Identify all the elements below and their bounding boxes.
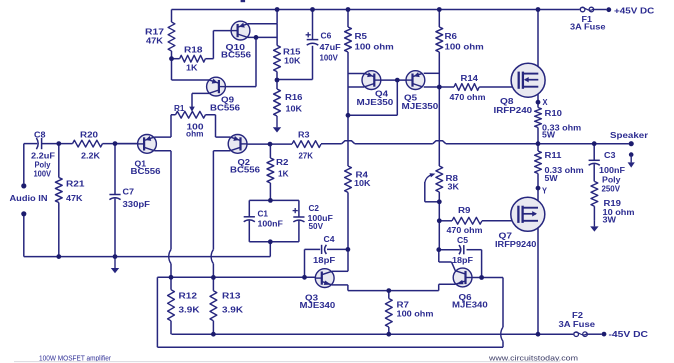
svg-text:27K: 27K — [299, 151, 314, 160]
svg-text:R6: R6 — [445, 32, 458, 41]
svg-text:MJE340: MJE340 — [300, 301, 336, 310]
svg-text:Poly: Poly — [602, 175, 621, 184]
svg-text:10K: 10K — [286, 104, 303, 113]
svg-text:Speaker: Speaker — [610, 131, 648, 140]
svg-text:R13: R13 — [222, 292, 241, 301]
svg-text:5W: 5W — [545, 174, 558, 183]
svg-text:C6: C6 — [321, 32, 332, 41]
svg-text:3K: 3K — [448, 182, 460, 191]
svg-text:330pF: 330pF — [123, 200, 151, 209]
svg-text:C5: C5 — [457, 236, 469, 245]
svg-text:18pF: 18pF — [452, 256, 473, 265]
svg-text:3.9K: 3.9K — [222, 305, 243, 314]
svg-text:R11: R11 — [545, 151, 563, 160]
svg-text:3.9K: 3.9K — [179, 305, 200, 314]
svg-text:C8: C8 — [34, 131, 46, 140]
svg-text:R7: R7 — [397, 301, 410, 310]
svg-text:R19: R19 — [604, 199, 622, 208]
svg-text:C3: C3 — [604, 151, 616, 160]
svg-text:1K: 1K — [278, 169, 289, 178]
svg-text:50V: 50V — [309, 222, 324, 231]
svg-text:2.2K: 2.2K — [81, 152, 100, 161]
svg-text:MJE340: MJE340 — [452, 301, 488, 310]
svg-text:R1: R1 — [174, 104, 185, 113]
svg-text:-45V DC: -45V DC — [609, 330, 649, 339]
svg-text:R20: R20 — [80, 131, 99, 140]
svg-text:IRFP9240: IRFP9240 — [495, 240, 537, 249]
svg-text:R4: R4 — [356, 171, 369, 180]
svg-text:10K: 10K — [284, 57, 301, 66]
svg-text:47K: 47K — [66, 194, 83, 203]
svg-text:MJE350: MJE350 — [402, 102, 439, 111]
svg-text:R10: R10 — [545, 109, 563, 118]
svg-text:R21: R21 — [66, 179, 85, 188]
svg-text:100nF: 100nF — [599, 166, 625, 175]
svg-text:3A Fuse: 3A Fuse — [559, 320, 596, 329]
svg-text:100 ohm: 100 ohm — [445, 42, 484, 51]
svg-text:R16: R16 — [285, 93, 303, 102]
svg-text:R18: R18 — [184, 46, 203, 55]
svg-text:18pF: 18pF — [313, 256, 335, 265]
svg-text:100nF: 100nF — [258, 220, 284, 229]
svg-text:BC556: BC556 — [221, 51, 252, 60]
svg-text:47K: 47K — [146, 37, 163, 46]
svg-text:1K: 1K — [186, 64, 198, 73]
svg-text:100V: 100V — [320, 54, 339, 63]
svg-text:C7: C7 — [123, 188, 135, 197]
svg-text:R12: R12 — [179, 292, 198, 301]
svg-text:BC556: BC556 — [131, 167, 162, 176]
svg-text:R14: R14 — [461, 74, 479, 83]
svg-text:250V: 250V — [602, 184, 621, 193]
svg-text:R15: R15 — [283, 47, 301, 56]
svg-text:F2: F2 — [572, 311, 584, 320]
svg-text:R9: R9 — [458, 206, 471, 215]
svg-text:BC556: BC556 — [230, 165, 261, 174]
svg-text:R17: R17 — [145, 28, 165, 37]
svg-text:47uF: 47uF — [320, 43, 341, 52]
svg-text:R2: R2 — [276, 158, 289, 167]
svg-text:Poly: Poly — [35, 160, 52, 169]
svg-text:470 ohm: 470 ohm — [450, 93, 486, 102]
svg-text:X: X — [543, 98, 549, 107]
svg-text:2.2uF: 2.2uF — [31, 152, 55, 161]
svg-text:R3: R3 — [298, 131, 310, 140]
svg-text:BC556: BC556 — [210, 104, 241, 113]
svg-text:R5: R5 — [355, 32, 368, 41]
svg-text:5W: 5W — [542, 131, 555, 140]
svg-text:470 ohm: 470 ohm — [447, 226, 483, 235]
svg-text:MJE350: MJE350 — [357, 98, 394, 107]
svg-text:Q8: Q8 — [500, 97, 514, 106]
svg-text:C1: C1 — [258, 210, 269, 219]
svg-text:100 ohm: 100 ohm — [355, 42, 394, 51]
svg-text:C2: C2 — [309, 204, 320, 213]
svg-text:3A Fuse: 3A Fuse — [570, 23, 606, 32]
svg-text:10K: 10K — [354, 179, 371, 188]
svg-text:100V: 100V — [34, 169, 52, 178]
svg-text:+45V DC: +45V DC — [614, 6, 654, 15]
svg-text:3W: 3W — [603, 215, 617, 224]
svg-text:C4: C4 — [324, 235, 336, 244]
svg-text:100 ohm: 100 ohm — [397, 310, 434, 319]
svg-text:Audio IN: Audio IN — [10, 194, 48, 203]
svg-text:ohm: ohm — [186, 130, 204, 139]
svg-text:IRFP240: IRFP240 — [494, 106, 533, 115]
svg-text:Y: Y — [542, 187, 548, 196]
svg-text:www.circuitstoday.com: www.circuitstoday.com — [488, 353, 578, 362]
